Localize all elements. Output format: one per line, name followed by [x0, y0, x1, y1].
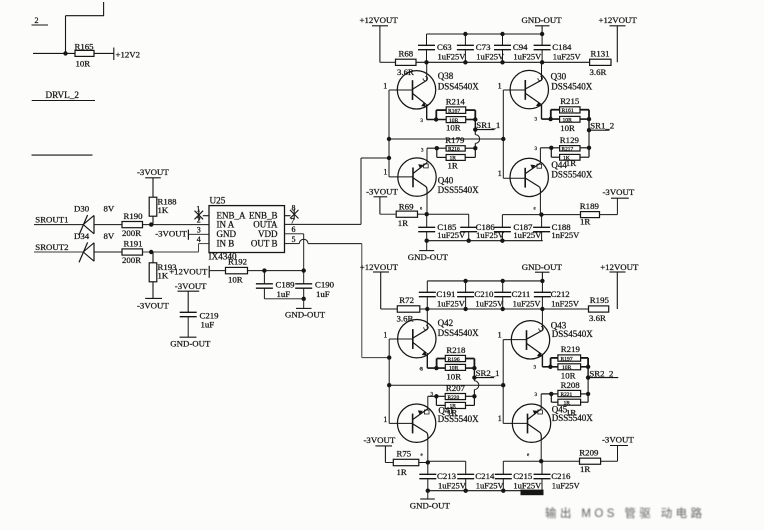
IC U25 IX4340	[209, 196, 285, 262]
wire base column	[502, 90, 504, 178]
power -3VOUT	[366, 186, 398, 214]
svg-text:R190: R190	[124, 211, 144, 221]
junction	[549, 392, 553, 396]
svg-text:10R: 10R	[228, 274, 243, 284]
svg-text:+12V2: +12V2	[116, 50, 141, 60]
capacitor C185	[418, 214, 466, 241]
svg-text:+12VOUT: +12VOUT	[599, 15, 638, 25]
wire	[428, 396, 445, 405]
wire	[581, 358, 589, 367]
wire	[427, 213, 469, 215]
wire	[94, 52, 114, 54]
svg-text:1: 1	[383, 167, 387, 176]
transistor Q42	[389, 318, 479, 358]
svg-text:200R: 200R	[122, 255, 141, 265]
tiny pin mark	[527, 453, 530, 458]
junction	[387, 355, 391, 359]
svg-text:e: e	[527, 453, 530, 458]
junction	[472, 375, 476, 379]
wire	[466, 110, 476, 119]
wire	[264, 298, 303, 300]
svg-text:e: e	[421, 453, 424, 458]
wire	[380, 61, 396, 63]
net label 1	[498, 414, 502, 423]
wire base column	[388, 90, 390, 177]
svg-text:1: 1	[498, 82, 502, 91]
capacitor C187	[494, 215, 542, 241]
pin name OUTA	[253, 220, 278, 230]
svg-text:DSS5540X: DSS5540X	[552, 413, 594, 423]
svg-text:1uF25V: 1uF25V	[476, 480, 505, 490]
svg-text:10R: 10R	[76, 59, 91, 69]
capacitor C216	[534, 461, 581, 491]
svg-text:R197: R197	[561, 356, 573, 362]
svg-text:R220: R220	[448, 395, 460, 401]
svg-text:-3VOUT: -3VOUT	[364, 435, 396, 445]
svg-text:3: 3	[534, 366, 537, 371]
svg-text:R221: R221	[561, 392, 573, 398]
svg-text:1: 1	[383, 82, 387, 91]
svg-text:SROUT1: SROUT1	[35, 215, 68, 225]
wire collector	[541, 62, 543, 80]
svg-text:1: 1	[498, 414, 502, 423]
net stub 2	[32, 16, 49, 25]
resistor R214	[446, 96, 466, 132]
svg-text:R219: R219	[561, 344, 581, 354]
junction	[425, 307, 545, 311]
power -3VOUT	[603, 187, 635, 198]
capacitor C211	[494, 281, 541, 309]
net label 1	[383, 82, 387, 91]
svg-text:1uF25V: 1uF25V	[513, 480, 542, 490]
pin 6 VDD wire	[285, 225, 304, 284]
wire	[465, 148, 475, 157]
capacitor C94	[494, 34, 542, 62]
junction	[149, 250, 153, 254]
junction	[586, 392, 590, 396]
svg-text:10R: 10R	[561, 370, 576, 380]
pin 4	[197, 235, 201, 244]
wire emitter	[542, 354, 558, 367]
svg-text:R192: R192	[228, 257, 247, 267]
capacitor C210	[457, 281, 504, 309]
wire	[587, 378, 589, 394]
label 8V	[104, 231, 115, 241]
resistor R72	[397, 295, 420, 323]
capacitor C219	[180, 310, 219, 337]
junction	[548, 117, 552, 121]
wire	[248, 270, 304, 272]
junction	[549, 146, 553, 150]
svg-text:-3VOUT: -3VOUT	[175, 281, 207, 291]
svg-text:3: 3	[421, 148, 424, 153]
ground GND-OUT	[408, 241, 449, 262]
svg-text:5: 5	[292, 235, 296, 244]
svg-text:D30: D30	[74, 203, 90, 213]
svg-text:1R: 1R	[580, 216, 590, 226]
pin name OUT B	[251, 239, 278, 249]
resistor R215	[560, 96, 580, 133]
svg-text:R217: R217	[562, 146, 574, 152]
wire supply rail	[420, 308, 589, 310]
capacitor C212	[534, 281, 580, 309]
svg-text:8V: 8V	[104, 231, 115, 241]
svg-text:R165: R165	[75, 42, 95, 52]
svg-text:Q42: Q42	[438, 318, 454, 328]
svg-text:DSS5540X: DSS5540X	[438, 414, 480, 424]
svg-text:R209: R209	[579, 447, 599, 457]
power +12VOUT	[599, 15, 638, 62]
svg-text:-3VOUT: -3VOUT	[602, 435, 634, 445]
svg-text:1: 1	[383, 415, 387, 424]
junction	[586, 365, 590, 369]
svg-text:+12VOUT: +12VOUT	[600, 262, 639, 272]
net label DRVL_2	[32, 90, 95, 101]
svg-text:1uF25V: 1uF25V	[437, 298, 466, 308]
tiny pin mark	[535, 147, 538, 152]
tiny pin mark	[534, 366, 537, 371]
svg-text:GND-OUT: GND-OUT	[522, 15, 563, 25]
wire top rail	[427, 33, 543, 35]
resistor R195	[589, 295, 610, 323]
svg-text:3: 3	[535, 147, 538, 152]
svg-text:1uF25V: 1uF25V	[513, 298, 542, 308]
svg-text:SROUT2: SROUT2	[35, 242, 68, 252]
pin name VDD	[258, 229, 278, 239]
wire	[152, 282, 154, 299]
svg-text:-3VOUT: -3VOUT	[137, 167, 169, 177]
wire	[474, 378, 478, 397]
junction	[587, 117, 591, 121]
wire	[580, 148, 589, 157]
tiny pin mark	[420, 367, 423, 372]
wire emitter	[426, 104, 428, 119]
pin name GND	[217, 229, 237, 239]
power +12VOUT	[360, 15, 399, 62]
svg-text:GND-OUT: GND-OUT	[408, 252, 449, 262]
wire jog	[551, 110, 560, 119]
wire bottom rail	[428, 490, 543, 492]
svg-text:1R: 1R	[397, 467, 407, 477]
wire	[541, 214, 580, 216]
ground GND-OUT	[522, 262, 563, 281]
transistor Q30	[503, 70, 593, 108]
transistor Q43	[503, 320, 593, 359]
wire jog	[551, 358, 558, 367]
junction	[501, 383, 505, 387]
wire	[473, 368, 475, 378]
tiny pin mark	[420, 367, 423, 372]
svg-text:R129: R129	[560, 135, 580, 145]
resistor R218	[445, 345, 466, 382]
wire	[419, 462, 428, 464]
power +12V2	[114, 48, 140, 61]
net label SR1_2	[589, 121, 614, 131]
wire mid rail	[389, 384, 503, 386]
svg-text:8: 8	[292, 203, 296, 212]
wire collector	[540, 439, 542, 461]
resistor R131	[590, 48, 612, 77]
svg-text:3.6R: 3.6R	[589, 313, 606, 323]
wire base column	[388, 339, 390, 423]
svg-text:1: 1	[383, 331, 387, 340]
svg-text:VDD: VDD	[258, 229, 278, 239]
wire collector	[426, 62, 428, 80]
transistor Q44	[503, 158, 593, 196]
ground GND-OUT	[522, 15, 563, 34]
svg-text:e: e	[420, 207, 423, 212]
svg-text:3: 3	[535, 393, 538, 398]
junction	[435, 146, 439, 150]
svg-text:R179: R179	[445, 135, 465, 145]
svg-text:1uF: 1uF	[277, 289, 291, 299]
junction	[548, 365, 552, 369]
power +12VOUT	[169, 266, 209, 278]
wire emitter	[542, 104, 560, 119]
svg-text:GND-OUT: GND-OUT	[522, 262, 563, 272]
resistor R75	[393, 449, 419, 478]
junction	[463, 32, 544, 36]
svg-text:1uF25V: 1uF25V	[552, 480, 581, 490]
wire collector	[541, 309, 543, 331]
svg-text:-3VOUT: -3VOUT	[603, 187, 635, 197]
wire	[152, 252, 154, 263]
resistor R129	[560, 135, 580, 168]
svg-text:R72: R72	[399, 295, 414, 305]
wire	[503, 460, 541, 462]
wire	[587, 367, 589, 378]
resistor R165	[75, 42, 95, 69]
wire emitter	[540, 394, 542, 409]
tiny pin mark	[535, 118, 538, 123]
svg-text:DSS5540X: DSS5540X	[551, 170, 593, 180]
capacitor C191	[419, 281, 466, 309]
wire emitter	[427, 396, 429, 409]
wire	[588, 130, 590, 148]
svg-text:R167: R167	[448, 109, 460, 115]
svg-text:1uF25V: 1uF25V	[475, 298, 504, 308]
junction	[473, 146, 477, 150]
pin 5 OUT B wire	[285, 235, 362, 244]
svg-text:3.6R: 3.6R	[590, 67, 607, 77]
caption	[545, 506, 705, 520]
pin name IN A	[217, 220, 235, 230]
tiny pin mark	[421, 453, 424, 458]
svg-text:Q40: Q40	[438, 176, 454, 186]
junction	[434, 366, 438, 370]
capacitor C188	[533, 215, 580, 241]
net label 1	[498, 169, 502, 178]
wire collector	[426, 193, 428, 214]
svg-text:R161: R161	[562, 108, 574, 114]
ground GND-OUT	[285, 299, 326, 320]
svg-text:IN B: IN B	[217, 239, 235, 249]
junction	[149, 222, 153, 226]
svg-text:SR2_2: SR2_2	[589, 368, 613, 378]
svg-text:GND-OUT: GND-OUT	[285, 310, 326, 320]
wire	[601, 446, 618, 462]
svg-text:1uF25V: 1uF25V	[476, 52, 505, 62]
wire	[152, 216, 154, 224]
svg-text:1R: 1R	[580, 464, 590, 474]
wire	[428, 460, 466, 462]
pin 3 -3VOUT	[155, 225, 209, 239]
svg-text:1K: 1K	[158, 271, 169, 281]
svg-text:DSS4540X: DSS4540X	[552, 329, 594, 339]
capacitor C73	[457, 34, 505, 62]
junction	[302, 268, 306, 272]
wire	[581, 394, 589, 402]
svg-text:2: 2	[197, 216, 201, 225]
transistor Q41	[389, 404, 479, 442]
tiny pin mark	[534, 207, 537, 212]
resistor R208	[558, 380, 581, 417]
capacitor C189	[256, 271, 295, 299]
svg-text:1uF25V: 1uF25V	[438, 480, 467, 490]
svg-text:GND: GND	[217, 229, 237, 239]
svg-text:-3VOUT: -3VOUT	[137, 300, 169, 310]
resistor R179	[445, 135, 465, 171]
capacitor C214	[457, 461, 504, 490]
wire	[475, 130, 479, 149]
power -3VOUT	[602, 435, 634, 446]
svg-text:+12VOUT: +12VOUT	[169, 266, 208, 276]
ground GND-OUT	[170, 337, 211, 348]
wire	[143, 251, 199, 253]
wire	[502, 214, 541, 216]
tiny pin mark	[420, 207, 423, 212]
svg-text:3: 3	[197, 225, 201, 234]
diode D34	[74, 231, 94, 262]
wire	[418, 213, 427, 215]
wire	[381, 308, 398, 310]
net label SR2_2	[588, 368, 618, 378]
wire thick segment	[521, 490, 544, 496]
wire bottom rail	[427, 240, 543, 242]
svg-text:SR2_1: SR2_1	[476, 368, 500, 378]
wire collector	[539, 193, 541, 214]
diode D30	[74, 203, 94, 235]
power -3VOUT	[137, 167, 169, 178]
svg-text:R69: R69	[399, 201, 414, 211]
wire mid rail	[389, 138, 503, 140]
svg-text:-3VOUT: -3VOUT	[155, 229, 187, 239]
junction	[426, 460, 430, 464]
wire	[34, 251, 83, 253]
svg-text:Q30: Q30	[551, 71, 567, 81]
svg-text:1uF: 1uF	[316, 289, 330, 299]
net label 1	[383, 167, 387, 176]
transistor Q38	[389, 71, 479, 109]
svg-text:DRVL_2: DRVL_2	[46, 90, 80, 100]
svg-text:R218: R218	[446, 345, 466, 355]
resistor R193	[149, 262, 177, 282]
svg-text:1R: 1R	[448, 161, 458, 171]
resistor R207	[445, 383, 465, 418]
junction	[587, 146, 591, 150]
junction	[424, 60, 544, 64]
resistor R188	[149, 197, 177, 217]
wire	[600, 198, 618, 214]
net label SR2_1	[474, 368, 499, 378]
capacitor C63	[418, 34, 466, 62]
wire	[209, 270, 225, 272]
wire	[541, 394, 558, 402]
svg-text:6: 6	[292, 225, 296, 234]
wire collector	[427, 439, 429, 462]
svg-text:1nF25V: 1nF25V	[551, 298, 580, 308]
svg-text:-3VOUT: -3VOUT	[366, 186, 398, 196]
junction	[587, 128, 591, 132]
wire	[466, 359, 475, 369]
svg-text:SR1_1: SR1_1	[476, 120, 500, 130]
svg-text:SR1_2: SR1_2	[590, 121, 614, 131]
power -3VOUT	[137, 298, 169, 310]
wire jog	[436, 110, 446, 119]
svg-text:R191: R191	[124, 238, 143, 248]
svg-text:1: 1	[498, 169, 502, 178]
net label SROUT2	[35, 242, 68, 252]
power -3VOUT	[364, 435, 396, 463]
net label SR1_1	[475, 120, 500, 130]
resistor R191	[122, 238, 143, 265]
junction	[473, 127, 477, 131]
svg-text:8V: 8V	[104, 203, 115, 213]
pin 2	[197, 216, 201, 225]
wire	[380, 213, 396, 215]
svg-text:1uF25V: 1uF25V	[513, 52, 542, 62]
resistor R192	[226, 257, 248, 285]
wire	[32, 154, 93, 156]
svg-text:1nF25V: 1nF25V	[551, 230, 580, 240]
ground GND-OUT	[410, 491, 451, 511]
svg-text:R207: R207	[446, 383, 466, 393]
svg-text:1R: 1R	[566, 158, 576, 168]
resistor R209	[579, 447, 600, 473]
svg-text:1K: 1K	[158, 205, 169, 215]
junction	[473, 117, 477, 121]
net label 1	[383, 331, 387, 340]
junction	[463, 279, 544, 283]
junction	[262, 268, 266, 272]
capacitor C213	[419, 463, 466, 491]
junction	[425, 212, 429, 216]
svg-text:R68: R68	[399, 48, 414, 58]
wire	[34, 224, 83, 226]
junction	[425, 239, 505, 243]
wire	[94, 251, 122, 253]
svg-text:Q38: Q38	[438, 71, 454, 81]
svg-text:GND-OUT: GND-OUT	[410, 500, 451, 510]
svg-text:GND-OUT: GND-OUT	[170, 338, 211, 348]
junction	[302, 297, 306, 301]
svg-text:OUT B: OUT B	[251, 239, 278, 249]
svg-text:7: 7	[291, 216, 295, 225]
svg-text:2: 2	[35, 16, 39, 25]
wire top rail	[427, 280, 542, 282]
transistor Q45	[503, 404, 593, 442]
svg-text:200R: 200R	[122, 228, 141, 238]
svg-text:R75: R75	[397, 449, 412, 459]
wire	[588, 119, 590, 130]
tiny pin mark	[431, 393, 434, 398]
capacitor C215	[495, 461, 542, 491]
capacitor C186	[460, 214, 505, 241]
svg-text:DSS4540X: DSS4540X	[551, 81, 593, 91]
junction	[539, 212, 543, 216]
power +12VOUT	[360, 262, 399, 309]
svg-text:输出 MOS 管驱 动电路: 输出 MOS 管驱 动电路	[545, 506, 705, 520]
